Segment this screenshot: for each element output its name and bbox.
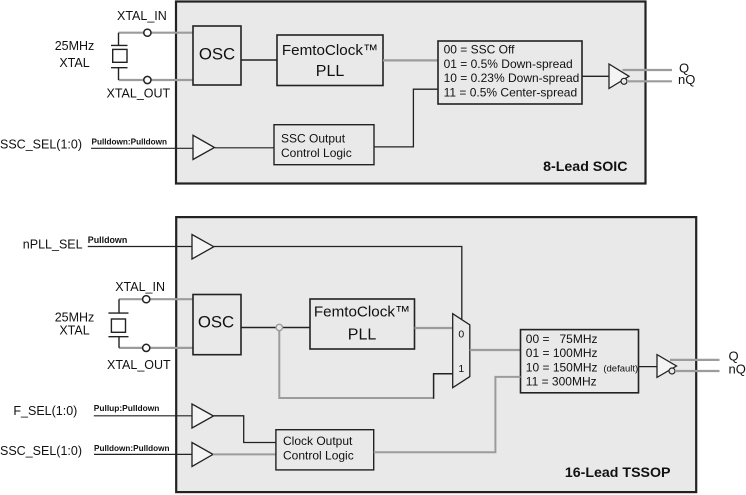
- svg-text:25MHz: 25MHz: [55, 39, 95, 53]
- pin circle XTAL_IN: [144, 29, 151, 36]
- svg-text:00 = 75MHz: 00 = 75MHz: [526, 332, 598, 346]
- wire XTAL_IN (top, gray): [119, 32, 195, 34]
- wire nPLL_SEL to mux select: [214, 247, 462, 320]
- block FemtoClock PLL: [277, 35, 383, 86]
- buffer SSC_SEL (top): [193, 135, 215, 159]
- svg-text:Pullup:Pulldown: Pullup:Pulldown: [94, 403, 160, 413]
- wire PLL2 to mux input 0 (gray): [415, 327, 453, 329]
- svg-text:01 = 0.5% Down-spread: 01 = 0.5% Down-spread: [444, 57, 573, 71]
- svg-text:nQ: nQ: [678, 72, 695, 87]
- wire clock output logic to freq table (gray): [374, 377, 521, 452]
- chip body 8-Lead SOIC: [176, 2, 646, 184]
- wire mux out to freq table (gray): [470, 349, 521, 351]
- svg-text:SSC_SEL(1:0): SSC_SEL(1:0): [0, 444, 82, 458]
- wire XTAL_IN (gray): [119, 298, 194, 300]
- buffer F_SEL: [192, 404, 214, 428]
- svg-text:nQ: nQ: [729, 362, 746, 377]
- wire PLL to SSC table (gray): [383, 59, 438, 61]
- svg-text:FemtoClock™: FemtoClock™: [314, 304, 410, 321]
- svg-text:Control Logic: Control Logic: [283, 449, 354, 463]
- wire SSC_SEL2 input: [94, 453, 192, 455]
- block SSC Output Control Logic: [274, 125, 374, 165]
- svg-text:SSC Output: SSC Output: [281, 131, 346, 145]
- svg-text:10 = 0.23% Down-spread: 10 = 0.23% Down-spread: [444, 71, 580, 85]
- wire nQ2 (gray): [675, 370, 720, 372]
- wire table to output buffer: [582, 75, 609, 77]
- wire Q2 (gray): [670, 359, 720, 361]
- svg-text:Pulldown: Pulldown: [88, 235, 127, 245]
- svg-text:Pulldown:Pulldown: Pulldown:Pulldown: [94, 444, 170, 453]
- pin circle XTAL_OUT: [144, 76, 151, 83]
- svg-text:Pulldown:Pulldown: Pulldown:Pulldown: [92, 138, 168, 147]
- pin circle XTAL_OUT2: [143, 344, 150, 351]
- buffer SSC_SEL 2: [192, 443, 213, 467]
- block Clock Output Control Logic: [276, 430, 374, 470]
- crystal Y2 25MHz: [108, 299, 128, 348]
- svg-text:PLL: PLL: [316, 63, 345, 80]
- block frequency table: [521, 330, 639, 393]
- svg-text:1: 1: [458, 363, 464, 375]
- wire freq table to output buffer: [639, 366, 657, 368]
- svg-text:OSC: OSC: [199, 44, 235, 63]
- svg-text:16-Lead TSSOP: 16-Lead TSSOP: [565, 465, 671, 481]
- wire XTAL_OUT (gray): [119, 347, 194, 349]
- block OSC 2: [193, 295, 241, 355]
- svg-text:10 = 150MHz (default): 10 = 150MHz (default): [526, 360, 638, 374]
- svg-text:XTAL: XTAL: [59, 56, 89, 70]
- svg-text:XTAL_IN: XTAL_IN: [115, 280, 165, 294]
- svg-text:SSC_SEL(1:0): SSC_SEL(1:0): [0, 138, 82, 152]
- output buffer (16-TSSOP): [657, 355, 677, 378]
- wire SSC logic to table: [374, 89, 438, 147]
- svg-text:OSC: OSC: [198, 312, 234, 331]
- block SSC mode table: [438, 41, 582, 104]
- wire buffer to clock output logic (gray): [213, 453, 276, 455]
- wire XTAL_OUT (bottom, gray): [119, 79, 195, 81]
- mux 2:1: [453, 314, 470, 388]
- inverter bubble: [621, 78, 627, 84]
- svg-text:01 = 100MHz: 01 = 100MHz: [526, 346, 598, 360]
- svg-text:0: 0: [458, 329, 464, 341]
- svg-text:00 = SSC Off: 00 = SSC Off: [444, 43, 515, 57]
- wire F_SEL to clock output logic: [214, 416, 276, 443]
- wire nPLL_SEL input: [88, 246, 193, 248]
- svg-text:PLL: PLL: [348, 326, 377, 343]
- wire bypass from node to mux input 1: [279, 331, 433, 398]
- wire nQ (gray): [627, 80, 672, 82]
- svg-text:XTAL_OUT: XTAL_OUT: [107, 358, 171, 372]
- svg-text:Control Logic: Control Logic: [281, 146, 352, 160]
- crystal Y1 25MHz: [111, 33, 128, 80]
- wire F_SEL input: [94, 415, 192, 417]
- svg-text:XTAL_IN: XTAL_IN: [117, 9, 167, 23]
- node circle after OSC2: [276, 324, 282, 330]
- svg-text:Clock Output: Clock Output: [283, 434, 353, 448]
- inverter bubble 2: [669, 368, 675, 374]
- svg-text:FemtoClock™: FemtoClock™: [282, 42, 378, 59]
- wire OSC2 to PLL2: [241, 327, 310, 329]
- wire SSC_SEL input: [91, 147, 193, 149]
- svg-text:11 = 0.5% Center-spread: 11 = 0.5% Center-spread: [444, 85, 578, 99]
- block OSC: [193, 26, 241, 85]
- wire buffer to SSC logic: [215, 147, 274, 149]
- svg-text:25MHz: 25MHz: [55, 310, 95, 324]
- buffer nPLL_SEL: [192, 235, 214, 260]
- wire Q (gray): [623, 69, 673, 71]
- svg-text:XTAL_OUT: XTAL_OUT: [107, 87, 171, 101]
- svg-text:11 = 300MHz: 11 = 300MHz: [526, 375, 597, 389]
- output buffer (8-SOIC): [609, 64, 629, 89]
- svg-text:nPLL_SEL: nPLL_SEL: [23, 237, 83, 251]
- svg-text:8-Lead SOIC: 8-Lead SOIC: [543, 159, 627, 175]
- svg-text:XTAL: XTAL: [59, 323, 89, 337]
- chip body 16-Lead TSSOP: [176, 217, 696, 492]
- pin circle XTAL_IN2: [143, 296, 150, 303]
- block FemtoClock PLL 2: [310, 299, 415, 349]
- svg-text:F_SEL(1:0): F_SEL(1:0): [13, 404, 77, 418]
- wire OSC to PLL: [241, 59, 277, 61]
